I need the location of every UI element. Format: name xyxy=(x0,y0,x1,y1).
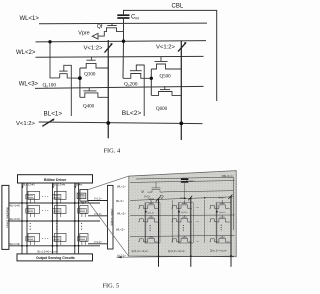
transistor Q300 xyxy=(80,57,108,68)
svg-text:BL<2>: BL<2> xyxy=(122,110,142,117)
junction node B xyxy=(150,77,153,80)
V-row junction dots magnified xyxy=(158,196,232,257)
wire bitline pair column 2 xyxy=(52,183,54,254)
junction node A xyxy=(78,76,82,80)
svg-text:...: ... xyxy=(196,219,199,223)
junction V-row / Qs100 column xyxy=(48,40,51,43)
cell row1 col1 xyxy=(26,191,40,203)
svg-text:FIG. 5: FIG. 5 xyxy=(103,283,120,290)
svg-text:C<1:n>: C<1:n> xyxy=(186,179,195,183)
svg-text:BL<1>: BL<1> xyxy=(116,199,124,203)
capacitor CM xyxy=(117,15,129,18)
panel rails xyxy=(130,177,235,236)
svg-text:CBL<1:n>: CBL<1:n> xyxy=(222,174,234,178)
V switches magnified xyxy=(156,194,233,201)
svg-text:CBL: CBL xyxy=(172,3,184,9)
transistor Q600 xyxy=(151,86,181,95)
panel ellipsis dots xyxy=(196,204,199,242)
wire wordline row 3 xyxy=(9,245,100,247)
rail WL1 xyxy=(130,181,235,183)
svg-text:CM: CM xyxy=(131,15,139,21)
wire V supply row mid xyxy=(88,215,108,217)
wire WL3 rail xyxy=(35,86,204,88)
magnified cell column 3 xyxy=(209,200,231,243)
wire node A vertical (Qs100/Q300/Q400 join) xyxy=(79,68,81,97)
svg-text:QS200: QS200 xyxy=(124,82,138,88)
svg-text:WL<3>: WL<3> xyxy=(116,228,125,232)
svg-text:V<1:2>: V<1:2> xyxy=(84,46,104,52)
svg-text:Q<n,1>-<n,m>: Q<n,1>-<n,m> xyxy=(210,248,227,252)
arrow V bottom xyxy=(117,256,122,258)
wire V supply row top xyxy=(88,200,108,202)
wire WL1 rail xyxy=(39,22,207,25)
svg-text:. . .: . . . xyxy=(42,193,48,198)
svg-text:WL<1>: WL<1> xyxy=(117,184,126,188)
svg-text:QS100: QS100 xyxy=(43,83,57,89)
cell row1 col3 (selected) xyxy=(77,190,88,203)
svg-text:V<1:2>: V<1:2> xyxy=(94,213,102,216)
wire BL bottom rail xyxy=(39,122,203,124)
panel left margin labels xyxy=(116,184,126,257)
panel vertical dots xyxy=(150,225,222,231)
rail WL2 xyxy=(130,214,235,217)
triangle Vpre magnified xyxy=(160,195,163,199)
array tiny labels xyxy=(10,184,103,254)
svg-text:FIG. 4: FIG. 4 xyxy=(104,147,121,154)
panel tiny labels xyxy=(132,174,234,253)
svg-text:V<n>: V<n> xyxy=(219,195,226,199)
wire wordline row 2 xyxy=(9,220,100,222)
svg-text:...: ... xyxy=(196,204,199,208)
rail V bottom xyxy=(117,256,235,257)
cell row3 col3 xyxy=(78,233,88,245)
svg-text:WL<3>: WL<3> xyxy=(19,82,39,88)
wire bitline BL1 column xyxy=(107,40,109,138)
wordline rows xyxy=(9,201,108,246)
junction BL rail / BL2 xyxy=(179,122,183,126)
capacitor CM magnified xyxy=(181,179,188,182)
junction V-row / cap column xyxy=(122,40,125,43)
wire wordline row 1 xyxy=(9,202,100,204)
svg-text:Q500: Q500 xyxy=(160,75,172,80)
cell row2 col3 xyxy=(78,206,88,218)
array junction dots xyxy=(21,202,84,247)
wire V-row rail xyxy=(36,41,207,42)
svg-text:Bitline Driver: Bitline Driver xyxy=(44,178,67,182)
bitline driver arrows xyxy=(21,183,76,188)
labels fig4 xyxy=(16,3,184,127)
svg-text:V<1:2>: V<1:2> xyxy=(94,198,102,201)
svg-text:BL<1>: BL<1> xyxy=(44,110,63,117)
svg-text:Q600: Q600 xyxy=(156,107,168,112)
svg-text:V<1:2>: V<1:2> xyxy=(156,44,176,50)
rail CBL xyxy=(136,177,234,230)
select transistor Qs100 xyxy=(50,42,80,116)
wire node B vertical (Qs200/Q500/Q600 join) xyxy=(150,69,152,95)
feed vertical column 1 xyxy=(172,200,174,243)
svg-text:Power Supply: Power Supply xyxy=(110,209,114,227)
wire cap column down to Qs200 xyxy=(122,41,125,78)
array bitline column pairs xyxy=(22,183,79,254)
svg-text:Q300: Q300 xyxy=(84,72,96,77)
svg-text:Q400: Q400 xyxy=(83,105,95,110)
rail WL3 xyxy=(130,235,235,236)
wire V supply row bottom xyxy=(88,243,108,245)
transistor Q500 xyxy=(151,57,181,69)
panel background xyxy=(129,171,237,257)
junction dots fig4 xyxy=(48,40,183,126)
transistor Qf xyxy=(98,24,124,37)
rail Qf output xyxy=(163,191,233,192)
svg-text:WL<2>: WL<2> xyxy=(16,50,36,56)
svg-text:. . .: . . . xyxy=(42,235,48,240)
wire from V-row to Qs100 xyxy=(50,42,60,78)
wire cap column magnified xyxy=(184,182,186,199)
select transistor Qs200 xyxy=(123,65,151,116)
wire bitline pair column 3 xyxy=(74,183,76,254)
array memory cells 3x3 xyxy=(26,190,88,245)
block Bitline Driver xyxy=(18,175,93,183)
bitline vertical 3 magnified xyxy=(230,197,232,266)
svg-text:WL<1>: WL<1> xyxy=(20,16,40,22)
array ellipsis dots xyxy=(30,193,82,240)
cell row1 col2 xyxy=(52,191,66,203)
transistor Q400 xyxy=(80,88,108,97)
wire WL2 rail xyxy=(36,55,204,58)
svg-text:WL<2>: WL<2> xyxy=(117,211,126,215)
svg-text:BL<1:2>#1-<1:m>: BL<1:2>#1-<1:m> xyxy=(38,251,58,254)
svg-text:Qf: Qf xyxy=(141,190,144,194)
svg-text:BL<1:2>#n: BL<1:2>#n xyxy=(54,184,66,187)
svg-text:Q<2,1>-<2,m>: Q<2,1>-<2,m> xyxy=(168,249,185,253)
switch V(1:2) on BL1 column xyxy=(105,44,113,53)
svg-text:V<1:2>: V<1:2> xyxy=(117,254,126,258)
svg-text:. . .: . . . xyxy=(42,207,48,212)
svg-text:Q<2,1>: Q<2,1> xyxy=(181,211,189,214)
svg-text:Qf: Qf xyxy=(97,24,103,30)
cell row2 col1 xyxy=(26,206,40,218)
svg-text:Q<1,1>: Q<1,1> xyxy=(148,212,156,215)
svg-text:Output Sensing Circuits: Output Sensing Circuits xyxy=(36,256,75,260)
svg-text:Q<1,1>-<1,m>: Q<1,1>-<1,m> xyxy=(132,249,149,253)
cell row2 col2 xyxy=(52,206,66,218)
V(1:2) arrow tip on bottom rail xyxy=(52,119,55,122)
wire cap to V-row xyxy=(123,19,125,42)
rail V row xyxy=(130,197,234,201)
svg-text:V<1>: V<1> xyxy=(144,194,151,198)
svg-text:...: ... xyxy=(196,238,199,242)
svg-text:WL<2>#1: WL<2>#1 xyxy=(10,218,21,221)
svg-text:Q<n,1>: Q<n,1> xyxy=(219,211,227,214)
block Output Sensing Circuits xyxy=(17,254,93,261)
block Power Supply xyxy=(108,185,115,249)
magnifier fan line top xyxy=(88,176,129,190)
bitline vertical 1 magnified xyxy=(158,199,160,267)
transistor Qf magnified xyxy=(148,182,164,192)
svg-text:Vpre: Vpre xyxy=(78,30,89,36)
magnified cell column 1 xyxy=(138,200,160,243)
cell row3 col2 xyxy=(52,233,66,245)
block Wordline Driver xyxy=(2,185,9,249)
svg-text:V<2>: V<2> xyxy=(180,196,187,200)
junction BL rail / BL1 xyxy=(106,121,110,125)
bitline vertical 2 magnified xyxy=(190,198,192,267)
switch V(1:2) on BL bottom rail xyxy=(42,119,54,126)
wire bitline BL2 column xyxy=(180,41,182,140)
wire bitline pair column 1 xyxy=(21,183,23,254)
svg-text:WL<1>#1: WL<1>#1 xyxy=(10,204,21,207)
magnified cell column 2 xyxy=(172,200,194,243)
feed vertical column 2 xyxy=(204,200,206,243)
magnifier fan line bottom xyxy=(88,201,129,256)
svg-text:V<1:2>: V<1:2> xyxy=(94,241,102,244)
svg-text:WL<n>#k: WL<n>#k xyxy=(10,243,21,246)
node CBL top rail wire xyxy=(124,10,217,101)
cell row3 col1 xyxy=(26,233,40,245)
svg-text:BL#m: BL#m xyxy=(76,184,82,187)
svg-text:V<1:2>: V<1:2> xyxy=(16,121,36,127)
Vpre source follower triangle xyxy=(92,33,98,39)
svg-text:BL<1:2>#1: BL<1:2>#1 xyxy=(23,184,35,187)
switch V(1:2) on BL2 column xyxy=(178,43,186,52)
